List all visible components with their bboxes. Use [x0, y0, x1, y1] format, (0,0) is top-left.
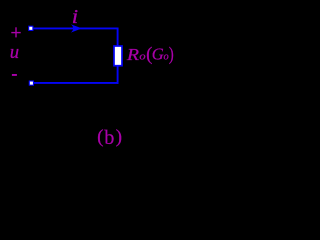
svg-text:u: u	[10, 42, 19, 63]
wire (right branch, upper segment)	[117, 28, 119, 47]
svg-text:R: R	[126, 45, 139, 64]
top wire	[34, 27, 118, 29]
current arrow	[71, 24, 82, 32]
label Ro(Go)	[126, 44, 174, 65]
wire (right branch, lower segment)	[117, 66, 119, 84]
svg-text:): )	[169, 44, 174, 65]
label + (polarity)	[11, 27, 20, 37]
svg-text:): )	[116, 127, 122, 148]
svg-text:G: G	[152, 45, 164, 64]
resistor Ro	[114, 46, 122, 66]
svg-text:b: b	[104, 127, 114, 149]
svg-text:o: o	[139, 52, 145, 63]
svg-text:i: i	[72, 7, 78, 28]
svg-text:(: (	[97, 127, 103, 148]
node (top-left terminal)	[29, 26, 33, 30]
bottom wire	[34, 82, 119, 84]
caption (b)	[97, 127, 122, 149]
label - (polarity)	[12, 74, 17, 76]
node (bottom-left terminal)	[29, 81, 33, 85]
